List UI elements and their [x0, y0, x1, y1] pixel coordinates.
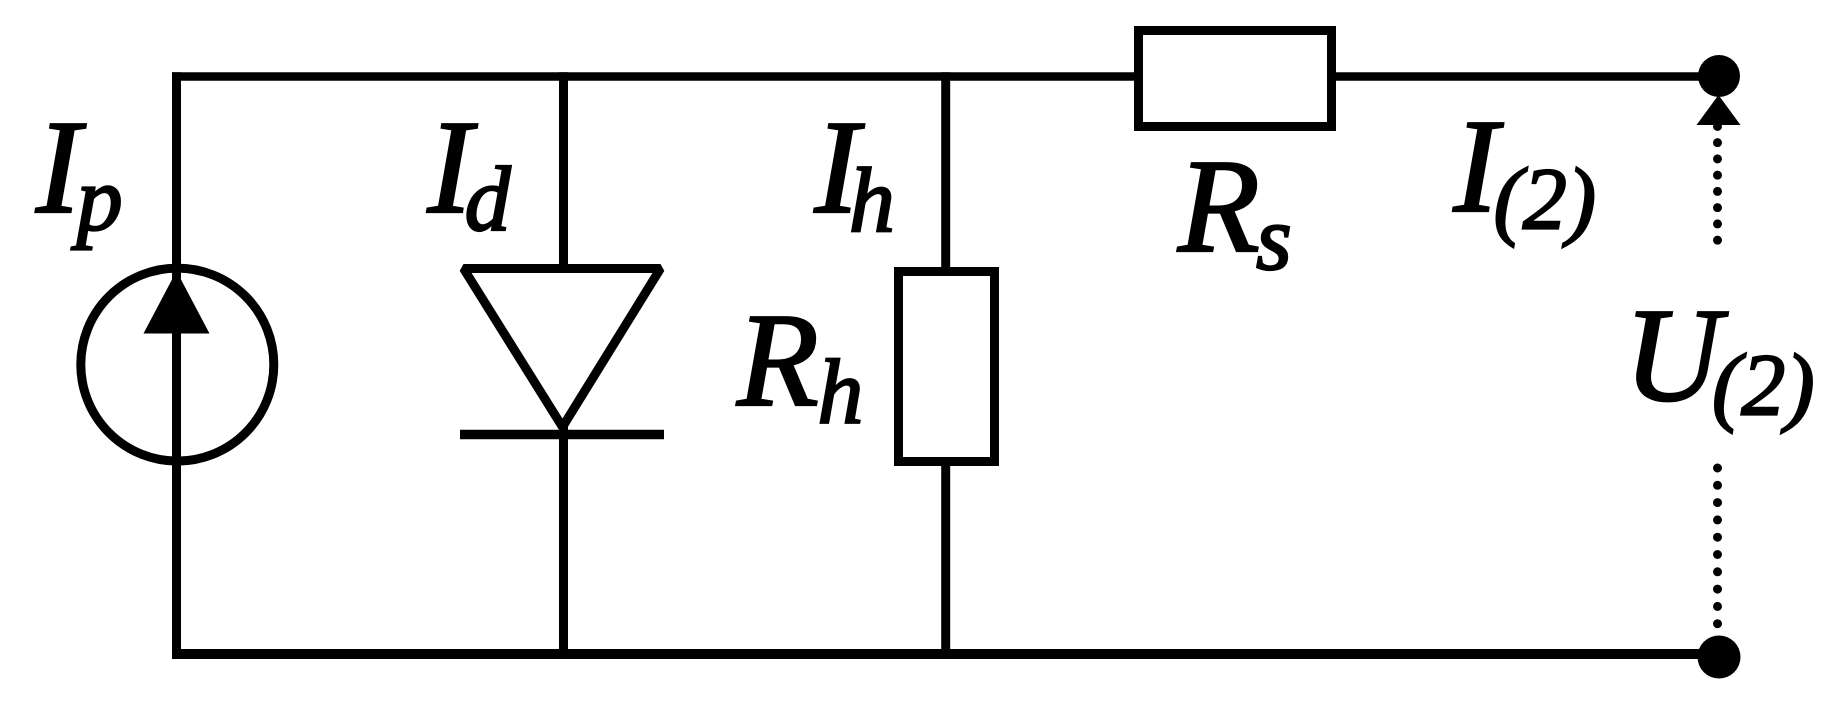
svg-text:R: R	[736, 286, 819, 434]
svg-text:(2): (2)	[1494, 151, 1597, 248]
svg-text:p: p	[71, 148, 123, 250]
svg-text:s: s	[1256, 187, 1292, 289]
svg-text:(2): (2)	[1712, 337, 1815, 434]
svg-text:R: R	[1177, 132, 1260, 280]
svg-text:h: h	[849, 150, 895, 252]
svg-text:h: h	[817, 341, 863, 443]
svg-text:d: d	[465, 148, 512, 250]
